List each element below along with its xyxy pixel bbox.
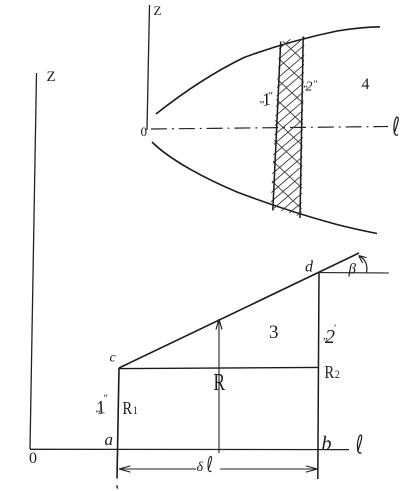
svg-text:4: 4 [362, 76, 370, 93]
svg-text:R: R [123, 397, 133, 418]
svg-text:R: R [325, 361, 335, 382]
svg-text:1: 1 [133, 404, 138, 417]
svg-text:c: c [110, 351, 117, 366]
svg-text:′: ′ [334, 323, 336, 335]
svg-text:″: ″ [269, 90, 274, 102]
svg-text:a: a [105, 430, 114, 449]
svg-text:2: 2 [306, 80, 313, 95]
svg-text:2: 2 [335, 368, 340, 381]
svg-text:Z: Z [47, 69, 56, 85]
svg-text:0: 0 [29, 450, 37, 467]
svg-text:d: d [305, 259, 314, 276]
svg-text:″: ″ [314, 80, 318, 91]
svg-text:0: 0 [141, 124, 148, 139]
svg-text:R: R [214, 368, 226, 396]
svg-text:″: ″ [104, 393, 109, 405]
svg-text:3: 3 [269, 322, 279, 343]
svg-text:β: β [348, 262, 357, 278]
svg-text:b: b [322, 433, 332, 455]
svg-text:δ: δ [197, 460, 204, 475]
svg-text:Z: Z [154, 3, 162, 18]
